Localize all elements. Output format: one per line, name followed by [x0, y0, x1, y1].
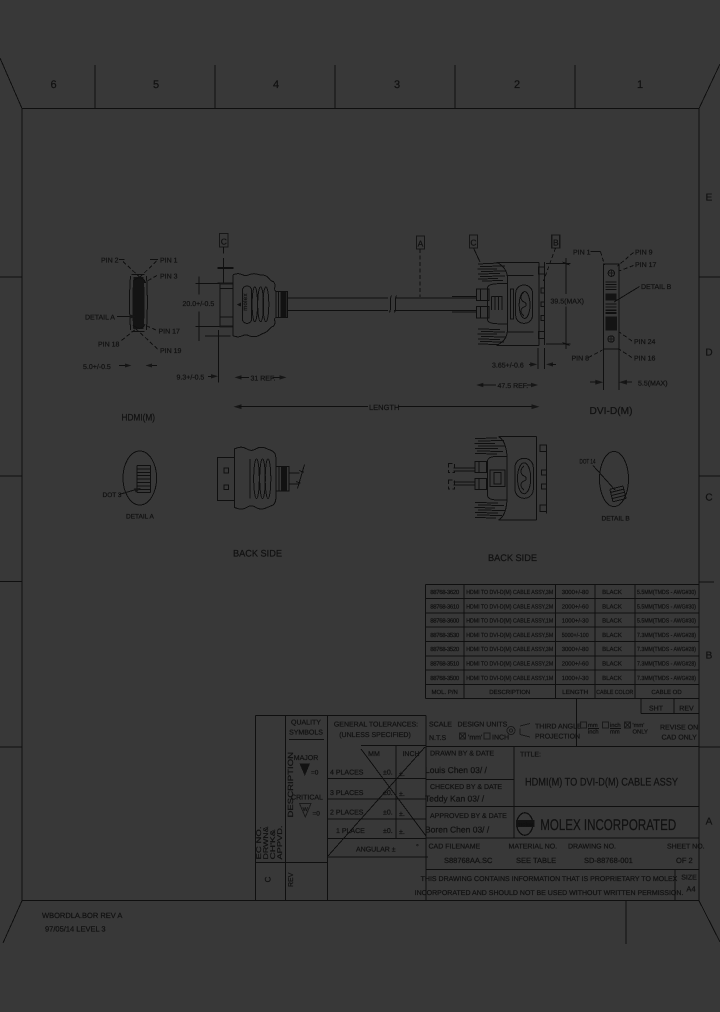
- svg-text:88768-3520: 88768-3520: [430, 646, 460, 653]
- svg-text:HDMI TO DVI-D(M) CABLE ASSY,3M: HDMI TO DVI-D(M) CABLE ASSY,3M: [466, 589, 553, 596]
- svg-text:1: 1: [637, 79, 643, 91]
- svg-text:LENGTH: LENGTH: [562, 689, 588, 696]
- svg-text:PIN 17: PIN 17: [159, 329, 181, 336]
- svg-text:MATERIAL NO.: MATERIAL NO.: [509, 844, 558, 851]
- svg-text:9.3+/-0.5: 9.3+/-0.5: [177, 374, 205, 382]
- svg-text:SD-88768-001: SD-88768-001: [584, 856, 633, 865]
- fold mark bottom: [625, 901, 627, 944]
- svg-text:HDMI TO DVI-D(M) CABLE ASSY,1M: HDMI TO DVI-D(M) CABLE ASSY,1M: [466, 618, 553, 625]
- svg-text:CAD FILENAME: CAD FILENAME: [429, 844, 481, 851]
- dvi wire bundle top: [478, 263, 507, 281]
- molex arrow marker: [237, 303, 241, 307]
- dvi back thumbscrew bottom: [453, 478, 486, 489]
- svg-text:20.0+/-0.5: 20.0+/-0.5: [183, 300, 215, 308]
- top zone ticks: [95, 65, 575, 109]
- svg-text:HDMI TO DVI-D(M) CABLE ASSY,2M: HDMI TO DVI-D(M) CABLE ASSY,2M: [466, 603, 553, 610]
- svg-text:C: C: [705, 493, 712, 504]
- detail a contact ladder: [137, 466, 151, 493]
- flag A: [417, 236, 425, 249]
- flag A dashed leader: [419, 249, 421, 297]
- dvi back molex oval: [515, 458, 533, 498]
- dvi inner slat: [510, 289, 513, 319]
- svg-text:47.5 REF.: 47.5 REF.: [498, 383, 529, 390]
- flag B dashed leader: [544, 248, 556, 281]
- cable break symbol: [390, 296, 397, 313]
- svg-text:inch: inch: [588, 729, 599, 736]
- svg-text:PIN 16: PIN 16: [634, 356, 656, 363]
- detail b circle: [600, 452, 629, 507]
- svg-text:C: C: [470, 238, 476, 248]
- svg-text:PIN 2: PIN 2: [101, 258, 119, 265]
- svg-text:BLACK: BLACK: [602, 618, 622, 625]
- third angle projection symbol: [507, 727, 515, 735]
- svg-text:5.5MM(TMDS - AWG#30): 5.5MM(TMDS - AWG#30): [637, 618, 696, 625]
- right zone ticks: [699, 277, 720, 747]
- svg-text:PIN 24: PIN 24: [634, 339, 656, 346]
- svg-text:C: C: [264, 876, 273, 882]
- hdmi back view overmold: [235, 447, 276, 509]
- svg-text:BLACK: BLACK: [602, 646, 622, 653]
- svg-text:REVISE ON: REVISE ON: [660, 725, 698, 732]
- svg-text:±0.: ±0.: [383, 770, 393, 777]
- svg-text:DETAIL B: DETAIL B: [641, 284, 672, 291]
- flag C leader ticks: [218, 258, 234, 283]
- svg-text:DOT 14: DOT 14: [580, 459, 596, 466]
- corner diagonal bottom-left: [3, 901, 22, 943]
- svg-text:LENGTH: LENGTH: [369, 403, 399, 412]
- svg-text:QUALITY: QUALITY: [291, 720, 321, 727]
- svg-text:REV: REV: [679, 706, 694, 713]
- svg-text:DRAWING NO.: DRAWING NO.: [568, 844, 616, 851]
- svg-text:INCH: INCH: [402, 751, 419, 758]
- svg-text:SHEET NO.: SHEET NO.: [667, 844, 705, 851]
- dvi back thumbscrew top: [453, 462, 486, 473]
- dvi thumbscrew top: [477, 289, 489, 300]
- svg-text:2: 2: [514, 79, 520, 91]
- svg-text:MOLEX INCORPORATED: MOLEX INCORPORATED: [540, 817, 676, 834]
- dvi thumbscrew bottom: [477, 307, 489, 318]
- hdmi back view shell: [218, 458, 235, 501]
- svg-text:HDMI(M): HDMI(M): [122, 413, 156, 424]
- svg-text:TITLE:: TITLE:: [520, 752, 541, 759]
- svg-text:THIRD ANGLE: THIRD ANGLE: [535, 724, 582, 731]
- svg-text:PIN 1: PIN 1: [160, 258, 178, 265]
- svg-text:±0.: ±0.: [383, 810, 393, 817]
- strain relief ribs: [276, 292, 288, 318]
- svg-text:CAD ONLY: CAD ONLY: [662, 735, 698, 742]
- svg-text:MAJOR: MAJOR: [294, 755, 319, 762]
- dvi screw shafts: [452, 296, 477, 312]
- dvi molex oval: [516, 285, 533, 323]
- dvi front view extensions: [603, 349, 619, 390]
- svg-text:CHECKED BY & DATE: CHECKED BY & DATE: [430, 784, 502, 791]
- dim 31 ref: [235, 375, 287, 382]
- svg-text:OF 2: OF 2: [676, 856, 693, 865]
- svg-text:1000+/-30: 1000+/-30: [562, 618, 590, 625]
- svg-text:3 PLACES: 3 PLACES: [330, 790, 364, 797]
- svg-text:2000+/-60: 2000+/-60: [562, 603, 590, 610]
- dim 20.0 extension lines: [196, 277, 221, 342]
- left rev columns: [256, 862, 328, 864]
- svg-text:PIN 8: PIN 8: [572, 356, 590, 363]
- overmold grip ridges: [252, 287, 257, 322]
- svg-text:7.3MM(TMDS - AWG#28): 7.3MM(TMDS - AWG#28): [637, 661, 696, 668]
- svg-text:3000+/-80: 3000+/-80: [562, 589, 590, 596]
- svg-text:B: B: [553, 238, 559, 248]
- svg-text:2 PLACES: 2 PLACES: [330, 810, 364, 817]
- dim 47.5 ref: [476, 383, 538, 390]
- dvi front view plate: [603, 264, 619, 349]
- svg-text:SCALE: SCALE: [429, 722, 452, 729]
- svg-text:±.: ±.: [399, 811, 405, 818]
- svg-text:ONLY: ONLY: [633, 729, 648, 736]
- svg-text:88768-3620: 88768-3620: [430, 589, 460, 596]
- hdmi shell plug: [220, 283, 234, 328]
- svg-text:S88768AA.SC: S88768AA.SC: [444, 856, 493, 865]
- svg-text:E: E: [706, 193, 713, 204]
- svg-text:HDMI TO DVI-D(M) CABLE ASSY,2M: HDMI TO DVI-D(M) CABLE ASSY,2M: [466, 661, 553, 668]
- svg-text:'mm': 'mm': [468, 735, 482, 742]
- svg-text:5.0+/-0.5: 5.0+/-0.5: [83, 363, 111, 371]
- hdmi front edge view (detail a source): [130, 275, 148, 332]
- svg-text:5.5MM(TMDS - AWG#30): 5.5MM(TMDS - AWG#30): [637, 589, 696, 596]
- dvi back view bundle bottom: [475, 503, 506, 519]
- table grid: [426, 584, 700, 698]
- cable segment right: [394, 298, 477, 310]
- svg-text:88768-3500: 88768-3500: [430, 675, 460, 682]
- svg-text:BLACK: BLACK: [602, 632, 622, 639]
- svg-text:ANGULAR ±: ANGULAR ±: [356, 847, 396, 854]
- svg-text:5: 5: [153, 79, 159, 91]
- svg-text:88768-3530: 88768-3530: [430, 632, 460, 639]
- svg-text:±.: ±.: [399, 771, 405, 778]
- svg-text:BLACK: BLACK: [602, 675, 622, 682]
- svg-text:2000+/-60: 2000+/-60: [562, 661, 590, 668]
- right zone letters: [705, 193, 712, 828]
- svg-text:D: D: [705, 348, 712, 359]
- svg-text:31 REF.: 31 REF.: [251, 376, 276, 383]
- detail b ladder: [610, 486, 626, 502]
- svg-text:BACK SIDE: BACK SIDE: [488, 553, 537, 564]
- svg-text:HDMI TO DVI-D(M) CABLE ASSY,1M: HDMI TO DVI-D(M) CABLE ASSY,1M: [466, 675, 553, 682]
- svg-text:7.3MM(TMDS - AWG#28): 7.3MM(TMDS - AWG#28): [637, 675, 696, 682]
- corner diagonal top-right: [699, 64, 720, 109]
- svg-text:BLACK: BLACK: [602, 661, 622, 668]
- svg-text:=0: =0: [311, 770, 319, 777]
- svg-text:3.65+/-0.6: 3.65+/-0.6: [492, 362, 524, 370]
- svg-text:5.5MM(TMDS - AWG#30): 5.5MM(TMDS - AWG#30): [637, 603, 696, 610]
- dim 9.3: [177, 330, 231, 383]
- svg-text:6: 6: [50, 79, 56, 91]
- hdmi back view ridges: [250, 459, 271, 499]
- svg-text:CABLE OD: CABLE OD: [651, 689, 682, 696]
- svg-text:±.: ±.: [399, 829, 405, 836]
- svg-text:3: 3: [394, 79, 400, 91]
- svg-text:HDMI(M) TO DVI-D(M) CABLE ASSY: HDMI(M) TO DVI-D(M) CABLE ASSY: [525, 777, 679, 789]
- hdmi back strain relief: [276, 467, 289, 492]
- svg-text:DESIGN UNITS: DESIGN UNITS: [458, 722, 508, 729]
- svg-text:MM: MM: [368, 751, 380, 758]
- svg-text:39.5(MAX): 39.5(MAX): [551, 298, 584, 306]
- svg-text:mm: mm: [610, 730, 620, 736]
- svg-text:INCH: INCH: [492, 735, 509, 742]
- top zone numbers: [50, 79, 643, 91]
- svg-text:EC NO.: EC NO.: [256, 826, 263, 859]
- sheet border frame: [22, 109, 699, 901]
- dvi back face plate: [540, 445, 547, 513]
- svg-text:PIN 17: PIN 17: [635, 262, 657, 269]
- svg-text:DRWN&: DRWN&: [263, 826, 270, 860]
- table rows text: [430, 589, 696, 696]
- right section verticals: [640, 699, 642, 714]
- svg-text:N.T.S: N.T.S: [429, 735, 446, 742]
- svg-text:A: A: [706, 817, 713, 828]
- corner diagonal top-left: [0, 58, 22, 109]
- svg-text:7.3MM(TMDS - AWG#28): 7.3MM(TMDS - AWG#28): [637, 632, 696, 639]
- svg-text:4 PLACES: 4 PLACES: [330, 770, 364, 777]
- svg-text:SHT: SHT: [649, 706, 664, 713]
- svg-text:88768-3610: 88768-3610: [430, 603, 460, 610]
- svg-text:REV: REV: [288, 872, 295, 887]
- dvi wire bundle bottom: [478, 329, 507, 345]
- svg-text:BACK SIDE: BACK SIDE: [233, 549, 282, 560]
- dvi neck ribs: [492, 297, 503, 311]
- molex logo: [517, 813, 533, 835]
- svg-text:88768-3510: 88768-3510: [430, 661, 460, 668]
- svg-text:1 PLACE: 1 PLACE: [336, 828, 365, 835]
- svg-text:1000+/-30: 1000+/-30: [562, 675, 590, 682]
- svg-text:MOL. P/N: MOL. P/N: [432, 689, 458, 696]
- svg-text:Boren Chen 03/ /: Boren Chen 03/ /: [425, 825, 490, 835]
- svg-text:PIN 19: PIN 19: [160, 348, 182, 355]
- svg-text:CRITICAL: CRITICAL: [291, 795, 323, 802]
- title block outline lines: [256, 699, 699, 901]
- tolerance grid: [361, 744, 426, 746]
- flag B: [552, 235, 560, 248]
- svg-text:7.3MM(TMDS - AWG#28): 7.3MM(TMDS - AWG#28): [637, 646, 696, 653]
- svg-text:HDMI TO DVI-D(M) CABLE ASSY,3M: HDMI TO DVI-D(M) CABLE ASSY,3M: [466, 646, 553, 653]
- svg-text:PIN 3: PIN 3: [160, 274, 178, 281]
- dim 5.5 max: [590, 380, 668, 388]
- svg-text:±0.: ±0.: [383, 790, 393, 797]
- svg-text:PROJECTION: PROJECTION: [535, 734, 580, 741]
- svg-text:DVI-D(M): DVI-D(M): [590, 406, 633, 417]
- svg-text:THIS DRAWING CONTAINS INFORMAT: THIS DRAWING CONTAINS INFORMATION THAT I…: [421, 876, 678, 883]
- svg-text:88768-3600: 88768-3600: [430, 618, 460, 625]
- svg-text:BLACK: BLACK: [602, 589, 622, 596]
- svg-text:5000+/-100: 5000+/-100: [562, 632, 590, 639]
- svg-text:'mm': 'mm': [633, 723, 645, 729]
- hdmi overmold body: [233, 274, 276, 337]
- svg-text:W: W: [303, 807, 309, 813]
- svg-text:SEE TABLE: SEE TABLE: [516, 856, 556, 865]
- svg-text:DETAIL A: DETAIL A: [85, 315, 115, 322]
- svg-text:CH'K&: CH'K&: [270, 829, 277, 860]
- svg-text:PIN 1: PIN 1: [573, 250, 591, 257]
- hdmi front edge view leaders: [122, 261, 158, 349]
- hdmi back cable stub: [289, 465, 305, 489]
- flag C (hdmi side): [220, 234, 229, 254]
- svg-text:±0.: ±0.: [383, 828, 393, 835]
- dvi back view body: [488, 437, 537, 520]
- flag C leader: [474, 248, 481, 262]
- dvi back view bundle top: [475, 438, 506, 454]
- revision checkboxes: [581, 722, 587, 728]
- dvi body overmold: [488, 262, 540, 345]
- svg-text:5.5(MAX): 5.5(MAX): [638, 380, 668, 388]
- svg-text:WBORDLA.BOR REV A: WBORDLA.BOR REV A: [42, 911, 122, 920]
- svg-text:DESCRIPTION: DESCRIPTION: [489, 689, 530, 696]
- svg-text:Teddy Kan 03/ /: Teddy Kan 03/ /: [425, 794, 485, 804]
- svg-text:A: A: [418, 239, 424, 249]
- svg-text:=0: =0: [313, 811, 321, 818]
- svg-text:molex: molex: [242, 293, 249, 311]
- molex capsule on overmold: [242, 286, 251, 323]
- svg-text:±.: ±.: [399, 791, 405, 798]
- svg-text:SYMBOLS: SYMBOLS: [289, 730, 323, 737]
- svg-text:B: B: [706, 651, 713, 662]
- dvi back screw heads dashed: [449, 464, 455, 490]
- corner diagonal bottom-right: [699, 901, 720, 942]
- svg-text:97/05/14 LEVEL 3: 97/05/14 LEVEL 3: [45, 925, 106, 934]
- svg-text:A4: A4: [686, 885, 695, 894]
- svg-text:°: °: [416, 844, 419, 851]
- svg-text:DOT 3: DOT 3: [103, 492, 122, 499]
- svg-text:3000+/-80: 3000+/-80: [562, 646, 590, 653]
- svg-text:SIZE: SIZE: [681, 875, 697, 882]
- svg-text:(UNLESS SPECIFIED): (UNLESS SPECIFIED): [339, 731, 411, 739]
- svg-text:PIN 18: PIN 18: [98, 342, 120, 349]
- svg-text:4: 4: [273, 79, 279, 91]
- flag C (dvi side): [470, 235, 478, 248]
- svg-text:DESCRIPTION: DESCRIPTION: [286, 752, 295, 818]
- dvi back inner rect: [490, 470, 505, 487]
- cable segment left: [288, 298, 389, 310]
- dim 39.5 max: [546, 258, 584, 349]
- svg-text:BLACK: BLACK: [602, 603, 622, 610]
- svg-text:DETAIL B: DETAIL B: [602, 516, 630, 523]
- dvi face plate: [539, 262, 545, 345]
- right section horizontals: [641, 713, 699, 715]
- svg-text:APPVD.: APPVD.: [277, 825, 284, 859]
- dim length: [234, 403, 540, 412]
- svg-text:CABLE COLOR: CABLE COLOR: [596, 689, 634, 696]
- svg-text:Louis Chen 03/ /: Louis Chen 03/ /: [425, 765, 488, 775]
- ec no vertical: [256, 825, 284, 859]
- svg-text:GENERAL TOLERANCES:: GENERAL TOLERANCES:: [334, 722, 418, 729]
- svg-text:INCORPORATED AND SHOULD NOT BE: INCORPORATED AND SHOULD NOT BE USED WITH…: [415, 890, 684, 897]
- left zone ticks: [0, 277, 22, 747]
- svg-text:molex: molex: [517, 822, 534, 828]
- detail a circle: [123, 451, 157, 505]
- svg-text:APPROVED BY & DATE: APPROVED BY & DATE: [430, 813, 507, 820]
- svg-text:DETAIL A: DETAIL A: [126, 514, 154, 521]
- svg-text:PIN 9: PIN 9: [635, 250, 653, 257]
- dim 3.65: [492, 348, 556, 370]
- svg-text:HDMI TO DVI-D(M) CABLE ASSY,5M: HDMI TO DVI-D(M) CABLE ASSY,5M: [466, 632, 553, 639]
- svg-text:DRAWN BY & DATE: DRAWN BY & DATE: [430, 751, 494, 758]
- svg-text:C: C: [221, 237, 227, 247]
